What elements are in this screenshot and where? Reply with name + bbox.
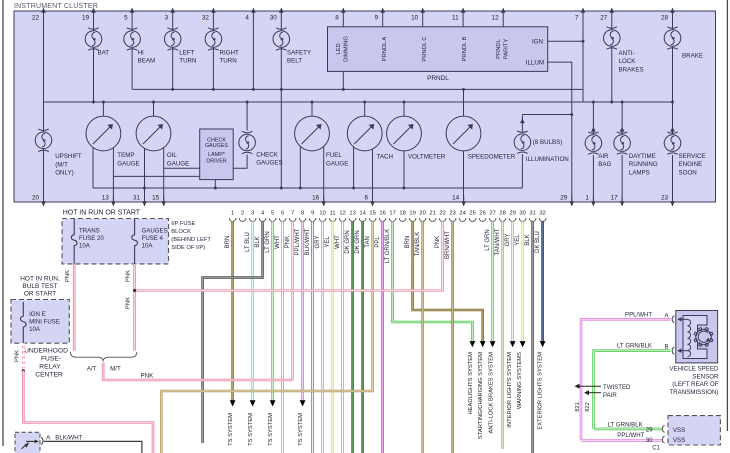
svg-text:14: 14 <box>452 195 460 202</box>
wire pin17 LT GRN/BLK to HEADLIGHTS <box>393 221 473 341</box>
wire LEFT TURN <box>172 11 174 89</box>
gauge OIL <box>136 116 171 151</box>
wire pin9 BLK/WHT <box>311 221 314 453</box>
sensor coil <box>688 320 691 357</box>
wire pin27 LT GRN to ANTI-LOCK arrow <box>491 221 494 341</box>
svg-text:TEMP: TEMP <box>117 152 134 159</box>
svg-text:PNK: PNK <box>126 270 132 282</box>
TEMP gauge pins <box>92 148 94 189</box>
svg-text:BLK: BLK <box>255 236 261 247</box>
ILLUMINATION bulb <box>521 115 523 133</box>
junction at 213.4,89.4 <box>212 88 215 91</box>
junction on right bus at 622.1 <box>621 101 624 104</box>
svg-text:22: 22 <box>439 211 445 217</box>
svg-text:INSTRUMENT CLUSTER: INSTRUMENT CLUSTER <box>14 3 98 10</box>
svg-text:1: 1 <box>585 195 589 202</box>
svg-text:PAIR: PAIR <box>603 392 617 399</box>
svg-text:TAN/BLK: TAN/BLK <box>415 232 421 257</box>
svg-text:I/P FUSE: I/P FUSE <box>171 221 195 227</box>
svg-text:TACH: TACH <box>377 153 393 160</box>
svg-text:LOCK: LOCK <box>619 58 637 65</box>
wire PPL/WHT sensor A <box>581 319 671 440</box>
wire pin20 TAN/BLK <box>421 221 424 453</box>
junction at 172.7,89.4 <box>171 88 174 91</box>
svg-text:PRNDL B: PRNDL B <box>462 36 468 61</box>
gauge SPEEDOMETER <box>446 116 481 151</box>
bulb DAYTIME RUNNING LAMPS <box>614 132 631 154</box>
svg-text:BLK: BLK <box>525 234 531 245</box>
svg-text:SIDE OF I/P): SIDE OF I/P) <box>171 245 205 251</box>
svg-text:10A: 10A <box>142 243 154 250</box>
svg-text:PNK: PNK <box>285 236 291 248</box>
wire pin7 PNK <box>291 221 294 380</box>
svg-text:ONLY): ONLY) <box>55 170 73 177</box>
svg-text:13: 13 <box>102 195 110 202</box>
BRAKE bulb <box>672 11 674 102</box>
svg-text:7: 7 <box>291 211 294 217</box>
svg-text:5: 5 <box>271 211 274 217</box>
svg-text:PNK: PNK <box>14 350 20 362</box>
svg-text:BRN: BRN <box>405 236 411 249</box>
svg-text:822: 822 <box>585 402 591 412</box>
wire LT GRN/BLK to VSS pin29 <box>594 428 663 431</box>
svg-text:8: 8 <box>301 211 304 217</box>
svg-text:IGN: IGN <box>532 38 543 45</box>
wire IGN from PRNDL <box>548 40 583 42</box>
junction at 253.4,89.4 <box>252 88 255 91</box>
bulb UPSHIFT <box>35 129 52 151</box>
svg-text:3: 3 <box>251 211 254 217</box>
bulb BAT <box>85 28 102 50</box>
svg-text:BRAKES: BRAKES <box>619 66 644 73</box>
bulb ILLUMINATION <box>514 131 531 153</box>
svg-text:DK GRN: DK GRN <box>355 230 361 253</box>
svg-text:LEFT: LEFT <box>179 49 194 56</box>
cluster top pin 11 <box>461 8 466 13</box>
svg-text:(8 BULBS): (8 BULBS) <box>533 139 563 146</box>
wire PNK to bottom <box>23 371 153 453</box>
svg-text:TRANS: TRANS <box>79 228 100 235</box>
fuse IGN E MINI FUSE 10A <box>20 302 26 343</box>
svg-text:21: 21 <box>429 211 435 217</box>
svg-text:PPL/WHT: PPL/WHT <box>625 311 652 318</box>
svg-text:PRNDL: PRNDL <box>427 75 449 82</box>
svg-text:28: 28 <box>499 211 505 217</box>
cluster top pin 19 <box>91 8 96 13</box>
svg-text:DRIVER: DRIVER <box>206 158 226 164</box>
wire pin3 LT BLU to arrow <box>251 221 254 400</box>
wire pin29 GRY to INTERIOR LIGHTS arrow <box>511 221 514 341</box>
svg-text:RUNNING: RUNNING <box>629 161 658 168</box>
wire pin28 TAN/WHT <box>501 221 504 449</box>
cluster bottom pin 29 <box>570 201 575 206</box>
svg-text:SAFETY: SAFETY <box>287 49 311 56</box>
svg-text:GAUGE: GAUGE <box>167 160 189 167</box>
wire pin19 BRN to STARTING/CHARGING <box>413 221 483 341</box>
gauge VOLTMETER <box>387 116 422 151</box>
svg-text:B: B <box>665 344 669 351</box>
wire pin23 BRN/WHT <box>451 221 454 453</box>
svg-text:LED: LED <box>336 43 342 54</box>
cluster top pin 30 <box>279 8 284 13</box>
svg-text:ANTI-: ANTI- <box>619 50 635 57</box>
svg-text:HEADLIGHTS SYSTEM: HEADLIGHTS SYSTEM <box>468 352 474 415</box>
svg-text:VSS: VSS <box>673 437 686 444</box>
junction on lower bus at 300.3 <box>299 187 302 190</box>
wire OIL right to driver box <box>164 167 200 169</box>
svg-text:BRAKE: BRAKE <box>682 53 703 60</box>
svg-text:DK GRN: DK GRN <box>345 230 351 253</box>
twisted pair arrows <box>577 385 601 387</box>
svg-text:23: 23 <box>661 195 669 202</box>
svg-text:YEL: YEL <box>325 236 331 248</box>
bulb RIGHT TURN <box>205 28 222 50</box>
svg-text:RIGHT: RIGHT <box>220 49 239 56</box>
bulb ANTI-LOCK BRAKES <box>604 27 621 49</box>
svg-text:CENTER: CENTER <box>35 372 63 379</box>
svg-text:OIL: OIL <box>167 152 178 159</box>
wire pin30 YEL to WARNING arrow <box>521 221 524 341</box>
bulb SERVICE ENGINE SOON <box>664 132 681 154</box>
svg-text:M/T: M/T <box>110 365 121 372</box>
svg-text:16: 16 <box>379 211 385 217</box>
svg-text:10A: 10A <box>79 243 91 250</box>
svg-text:31: 31 <box>133 195 141 202</box>
svg-text:ANTI-LOCK BRAKES SYSTEM: ANTI-LOCK BRAKES SYSTEM <box>489 352 495 434</box>
svg-text:GRY: GRY <box>505 234 511 247</box>
svg-text:PPL: PPL <box>375 236 381 248</box>
wire pin4 <box>252 11 254 89</box>
svg-text:MINI FUSE: MINI FUSE <box>29 319 60 326</box>
switch symbol <box>22 443 29 449</box>
SPEEDOMETER <box>463 89 465 116</box>
wire illumination bottom <box>521 154 523 188</box>
svg-text:CHECK: CHECK <box>256 152 279 159</box>
svg-text:TS SYSTEM: TS SYSTEM <box>298 413 304 446</box>
VSS pin connector arcs <box>662 425 664 432</box>
gauge FUEL <box>295 116 330 151</box>
wire pin4 BLK <box>203 221 263 443</box>
svg-text:DK BLU: DK BLU <box>535 231 541 253</box>
cluster top pin 4 <box>251 8 256 13</box>
svg-text:19: 19 <box>409 211 415 217</box>
svg-text:TAN/WHT: TAN/WHT <box>495 228 501 255</box>
junction on lower bus at 215.3 <box>214 187 217 190</box>
PRNDL box U1 <box>328 27 548 72</box>
svg-text:12: 12 <box>492 15 500 22</box>
svg-text:TS SYSTEM: TS SYSTEM <box>268 413 274 446</box>
wire pin6 WHT <box>281 221 284 453</box>
svg-text:RELAY: RELAY <box>39 364 61 371</box>
junction on gauge bus at 404 <box>403 101 406 104</box>
PRNDL pin wire x=503.2 <box>502 11 504 27</box>
svg-text:LT GRN: LT GRN <box>485 229 491 250</box>
wire LED DIMMING to lamp bus <box>342 71 344 89</box>
wire BAT <box>93 11 95 102</box>
svg-text:PARITY: PARITY <box>504 39 510 60</box>
cluster bottom pin 1 <box>591 201 596 206</box>
svg-text:17: 17 <box>611 195 619 202</box>
svg-text:DAYTIME: DAYTIME <box>629 153 656 160</box>
svg-text:BEAM: BEAM <box>138 58 156 65</box>
junction on lower bus at 403.9 <box>402 187 405 190</box>
svg-text:INTERIOR LIGHTS SYSTEM: INTERIOR LIGHTS SYSTEM <box>507 352 513 428</box>
wire pin11 YEL <box>331 221 334 453</box>
svg-text:SOON: SOON <box>679 169 697 176</box>
wire pin22 PNK from fuse <box>135 221 443 290</box>
svg-text:22: 22 <box>32 15 40 22</box>
svg-text:GAUGES: GAUGES <box>205 143 228 149</box>
wire IGN pin7 <box>582 11 584 102</box>
svg-text:VOLTMETER: VOLTMETER <box>408 153 446 160</box>
cluster top pin 10 <box>420 8 425 13</box>
wire pin12 WHT <box>341 221 344 453</box>
bulb SAFETY BELT <box>273 28 290 50</box>
svg-text:30: 30 <box>646 437 653 444</box>
wire pin16 PPL <box>381 221 384 453</box>
cluster top pin 28 <box>670 8 675 13</box>
wire PPL/WHT to VSS pin30 <box>581 439 663 442</box>
wire TEMP right to driver box <box>113 175 199 177</box>
cluster top pin 7 <box>581 8 586 13</box>
svg-text:18: 18 <box>399 211 405 217</box>
DAYTIME RUNNING LAMPS bulb <box>621 102 623 134</box>
wire PNK from GAUGES fuse <box>133 264 136 351</box>
wire pin13 DK GRN <box>351 221 354 453</box>
svg-text:TURN: TURN <box>179 58 196 65</box>
PRNDL pin wire x=463.1 <box>462 11 464 27</box>
svg-text:FUEL: FUEL <box>326 152 342 159</box>
svg-text:PRNDL C: PRNDL C <box>422 36 428 61</box>
svg-text:A/T: A/T <box>87 365 97 372</box>
svg-text:TAN: TAN <box>365 236 371 248</box>
svg-text:BULB TEST: BULB TEST <box>22 283 57 290</box>
svg-text:11: 11 <box>330 211 336 217</box>
svg-text:6: 6 <box>281 211 284 217</box>
OIL GAUGE <box>153 102 155 116</box>
svg-text:PNK: PNK <box>141 373 155 380</box>
svg-text:AIR: AIR <box>598 153 609 160</box>
svg-text:C1: C1 <box>652 445 660 452</box>
svg-text:28: 28 <box>661 15 669 22</box>
svg-text:2: 2 <box>241 211 244 217</box>
cluster bottom pin 15 <box>161 201 166 206</box>
VOLTMETER <box>403 102 405 116</box>
svg-text:TS SYSTEM: TS SYSTEM <box>248 413 254 446</box>
PRNDL pin wire x=422.7 <box>422 11 424 27</box>
svg-text:26: 26 <box>479 211 485 217</box>
junction on gauge bus at 103.4 <box>102 101 105 104</box>
svg-text:SERVICE: SERVICE <box>679 153 706 160</box>
svg-text:821: 821 <box>575 402 581 412</box>
svg-text:ILLUMINATION: ILLUMINATION <box>526 156 569 163</box>
svg-text:20: 20 <box>32 195 40 202</box>
ANTI-LOCK BRAKES bulb <box>611 11 613 102</box>
svg-text:32: 32 <box>202 15 210 22</box>
wire illumination top link <box>522 114 571 116</box>
bulb CHECK GAUGES <box>239 131 256 153</box>
bulb AIR BAG <box>585 132 602 154</box>
svg-text:11: 11 <box>452 15 459 22</box>
svg-text:UNDERHOOD: UNDERHOOD <box>24 348 68 355</box>
svg-text:HOT IN RUN,: HOT IN RUN, <box>20 276 60 283</box>
svg-text:OR START: OR START <box>24 291 56 298</box>
svg-text:23: 23 <box>449 211 455 217</box>
svg-text:WHT: WHT <box>335 235 341 249</box>
svg-text:BLOCK: BLOCK <box>171 229 191 235</box>
svg-text:29: 29 <box>646 427 653 434</box>
svg-text:ILLUM: ILLUM <box>526 60 544 67</box>
svg-text:24: 24 <box>459 211 466 217</box>
wire: lamp row bus <box>132 88 583 90</box>
cluster top pin 8 <box>341 8 346 13</box>
wire PNK below brace to pin7 <box>103 363 293 381</box>
cluster bottom pin 23 <box>670 201 675 206</box>
cluster bottom pin 13 <box>111 201 116 206</box>
svg-text:PPL/WHT: PPL/WHT <box>617 432 644 439</box>
wire PNK dashed from IGN E fuse <box>22 343 25 368</box>
vehicle speed sensor box <box>676 311 718 363</box>
svg-text:ENGINE: ENGINE <box>679 161 703 168</box>
AIR BAG bulb <box>592 102 594 134</box>
cluster top pin 3 <box>170 8 175 13</box>
svg-text:FUSE-: FUSE- <box>41 356 61 363</box>
cluster bottom pin 31 <box>142 201 147 206</box>
svg-text:1: 1 <box>231 211 234 217</box>
wire HI BEAM <box>131 11 133 89</box>
wire pin14 DK GRN <box>361 221 364 453</box>
junction at 343.3,89.4 <box>342 88 345 91</box>
svg-text:HI: HI <box>138 49 144 56</box>
switch connector <box>41 438 43 445</box>
page left border <box>2 0 4 446</box>
IGN E fuse dashed box <box>11 300 69 344</box>
wire SAFETY BELT (continues to lower bus) <box>280 11 282 188</box>
wire BLK/WHT <box>44 441 142 453</box>
svg-text:TS SYSTEM: TS SYSTEM <box>228 413 234 446</box>
svg-text:BELT: BELT <box>287 58 302 65</box>
svg-text:9: 9 <box>311 211 314 217</box>
svg-text:20: 20 <box>419 211 425 217</box>
junction at 571.8,114.5 <box>570 113 573 116</box>
svg-text:LT BLU: LT BLU <box>245 232 251 252</box>
svg-text:WHT: WHT <box>275 235 281 249</box>
svg-text:IGN E: IGN E <box>29 311 46 318</box>
VSS dashed box <box>668 416 720 445</box>
svg-text:(LEFT REAR OF: (LEFT REAR OF <box>672 381 719 388</box>
svg-text:EXTERIOR LIGHTS SYSTEM: EXTERIOR LIGHTS SYSTEM <box>538 352 544 430</box>
cluster bottom pin 20 <box>41 201 46 206</box>
svg-text:LAMP*: LAMP* <box>208 152 226 158</box>
svg-text:27: 27 <box>489 211 495 217</box>
svg-text:7: 7 <box>575 15 579 22</box>
junction on right bus at 672.5 <box>671 101 674 104</box>
junction on lower bus at 281.3 <box>280 187 283 190</box>
svg-text:31: 31 <box>529 211 535 217</box>
svg-text:GAUGE: GAUGE <box>117 160 139 167</box>
svg-text:13: 13 <box>349 211 355 217</box>
gauge TEMP <box>86 116 121 151</box>
right bus <box>583 101 673 103</box>
fuse GAUGES FUSE 4 10A <box>132 219 138 264</box>
cluster top pin 5 <box>130 8 135 13</box>
svg-text:GRY: GRY <box>315 236 321 249</box>
TEMP GAUGE <box>102 102 104 116</box>
bulb HI BEAM <box>124 28 141 50</box>
junction on lower bus at 144.5 <box>143 187 146 190</box>
svg-text:SENSOR: SENSOR <box>692 373 719 380</box>
wire: gauge supply bus <box>44 101 673 103</box>
svg-text:10: 10 <box>411 15 419 22</box>
svg-text:GAUGES: GAUGES <box>142 228 168 235</box>
svg-text:15: 15 <box>369 211 375 217</box>
svg-text:FUSE 20: FUSE 20 <box>79 235 104 242</box>
bulb BRAKE <box>664 27 681 49</box>
wire RIGHT TURN <box>212 11 214 89</box>
svg-text:19: 19 <box>82 15 90 22</box>
wire pin31 BLK <box>531 221 534 453</box>
junction on gauge bus at 153.5 <box>152 101 155 104</box>
svg-text:PPL/WHT: PPL/WHT <box>295 228 301 255</box>
wire pin32 DK BLU to EXTERIOR LIGHTS arrow <box>541 221 544 341</box>
page right border <box>726 0 728 431</box>
svg-text:12: 12 <box>339 211 345 217</box>
svg-text:6: 6 <box>364 195 368 202</box>
svg-text:LT GRN/BLK: LT GRN/BLK <box>385 229 391 263</box>
svg-text:HOT IN RUN OR START: HOT IN RUN OR START <box>63 210 141 217</box>
CHECK GAUGES LAMP DRIVER box <box>200 129 234 180</box>
svg-text:GAUGE: GAUGE <box>326 160 348 167</box>
wire LT GRN/BLK sensor B <box>594 351 671 429</box>
junction on gauge bus at 364.7 <box>363 101 366 104</box>
cluster top pin 27 <box>610 8 615 13</box>
svg-text:LT GRN/BLK: LT GRN/BLK <box>617 343 652 350</box>
cluster bottom pin 16 <box>321 201 326 206</box>
lower gauge bus <box>93 187 522 189</box>
svg-text:LT GRN: LT GRN <box>265 231 271 252</box>
wire check gauges bulb to driver box <box>233 155 247 169</box>
svg-text:17: 17 <box>389 211 395 217</box>
svg-text:PRNDL: PRNDL <box>496 38 502 58</box>
svg-text:(BEHIND LEFT: (BEHIND LEFT <box>171 237 211 243</box>
svg-text:UPSHIFT: UPSHIFT <box>55 153 82 160</box>
wire pin10 GRY <box>321 221 324 453</box>
cluster top pin 12 <box>501 8 506 13</box>
junction on gauge bus at 247.1 <box>246 101 249 104</box>
svg-text:TWISTED: TWISTED <box>603 384 631 391</box>
svg-text:30: 30 <box>270 15 278 22</box>
svg-text:10: 10 <box>319 211 325 217</box>
svg-text:FUSE 4: FUSE 4 <box>142 235 164 242</box>
svg-text:25: 25 <box>469 211 475 217</box>
brace underhood A/T M/T <box>71 352 137 362</box>
junction at 463.5,89.4 <box>462 88 465 91</box>
sensor toothed wheel <box>696 329 712 345</box>
svg-text:5: 5 <box>124 15 128 22</box>
junction on right bus at 593.4 <box>592 101 595 104</box>
PRNDL pin wire x=343.3 <box>342 11 344 27</box>
svg-text:8: 8 <box>335 15 339 22</box>
cluster top pin 22 <box>41 8 46 13</box>
svg-text:GAUGES: GAUGES <box>256 160 282 167</box>
svg-text:PNK: PNK <box>65 270 71 282</box>
svg-text:BLK/WHT: BLK/WHT <box>305 228 311 255</box>
bulb LEFT TURN <box>164 28 181 50</box>
svg-text:29: 29 <box>509 211 515 217</box>
SERVICE ENGINE SOON bulb <box>672 102 674 134</box>
instrument cluster box <box>14 11 716 202</box>
svg-text:TURN: TURN <box>220 58 237 65</box>
